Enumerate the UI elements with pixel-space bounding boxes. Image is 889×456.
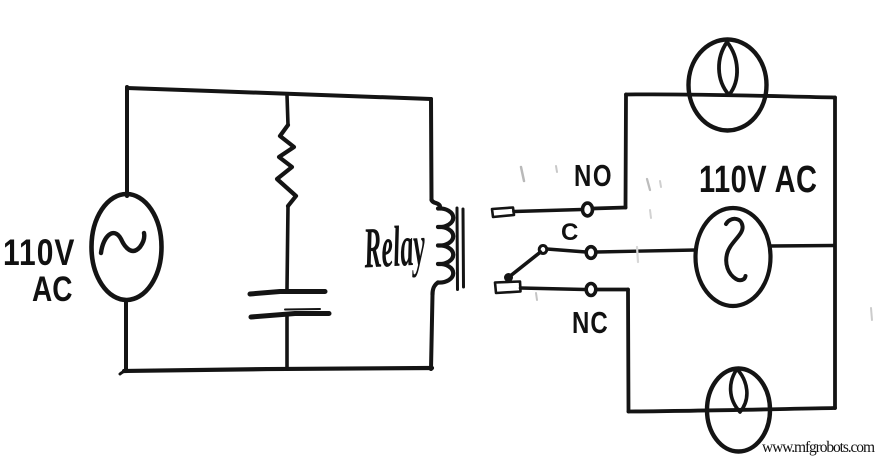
svg-text:AC: AC [32,269,73,309]
wire lug to NO contact [514,210,582,212]
NC terminal lug [495,282,521,294]
AC source V1 [92,194,162,300]
wire C contact to source [597,250,697,252]
NO terminal lug [492,208,514,218]
wire right side of right loop [833,98,837,409]
svg-text:www.mfgrobots.com: www.mfgrobots.com [762,439,875,456]
svg-text:NC: NC [572,305,609,340]
wire middle branch upper [287,95,288,125]
wire NC contact to node [597,288,628,292]
C contact circle [586,247,596,259]
NO contact circle [583,203,593,216]
svg-text:Relay: Relay [362,212,427,280]
wire bottom of right loop [629,408,836,412]
wire left upper [125,87,129,196]
wire lug to NC contact [521,288,586,290]
wire right branch lower [431,295,433,370]
wire NC node down [626,290,630,412]
wire capacitor to bottom [285,316,289,369]
svg-text:NO: NO [574,158,613,193]
switch arm end circle [539,246,547,254]
wire arm end to C contact [547,249,586,252]
wire NO node up [624,95,628,208]
wire left lower [124,300,128,369]
lamp LP1 [689,40,767,131]
svg-text:C: C [561,219,578,246]
transformer core line 2 [462,209,466,287]
relay coil L1 [432,200,441,209]
wire bottom of left loop [124,368,432,371]
transformer core line 1 [456,208,460,290]
wire NO contact to node [593,208,626,209]
lamp LP2 filament loop [731,369,747,412]
resistor R1 [277,125,296,206]
svg-text:110V AC: 110V AC [699,159,817,200]
switch arm [509,252,541,277]
lamp LP1 filament loop [719,42,737,95]
sine symbol inside V1 [101,233,144,253]
capacitor stray stroke [285,308,320,311]
NC contact circle [586,284,596,296]
wire source V2 to right [771,244,835,248]
wire right branch upper [429,99,434,200]
capacitor C1 bottom plate [251,314,329,318]
scan smudges [521,167,524,181]
sine symbol inside V2 [726,219,746,280]
capacitor C1 top plate [250,292,325,295]
switch pivot [504,273,513,282]
lamp LP2 [707,369,770,452]
wire top of right loop [626,94,835,97]
wire resistor to capacitor [287,206,288,289]
corner overshoot [120,370,127,374]
AC source V2 [696,208,771,306]
svg-text:110V: 110V [3,232,75,274]
wire top of left loop [127,88,431,99]
